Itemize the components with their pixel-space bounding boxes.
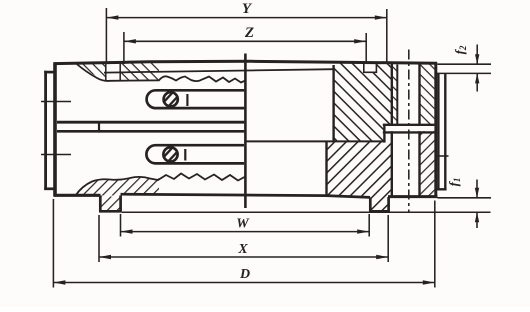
cross pin white band [386,126,435,131]
spacer ring left line [437,73,439,189]
dimension X arrows [99,255,388,259]
flange silhouette line below body [122,211,491,213]
svg-text:D: D [239,267,250,282]
top wall inner surface line [104,69,334,72]
cross pin top line [383,124,435,126]
left cap top edge [44,71,55,74]
body bottom edge right segment [388,195,438,198]
end cap right band hatch upper [420,64,435,126]
end cap right band hatch lower [420,130,435,196]
body bottom edge middle segment [121,194,371,197]
dimension W arrows [121,229,370,233]
cavity bottom line [247,140,386,142]
dimension f1 upper extension [438,197,492,199]
top wall break wavy line [76,63,246,83]
body bottom edge left segment [54,194,101,197]
inner sleeve parting line [244,54,247,209]
left cap left edge [44,71,47,190]
dimension D line [53,282,434,284]
spacer ring bottom edge [437,188,447,190]
spacer ring centerline tick [436,155,449,157]
cross pin bottom line [383,131,435,133]
dimension f2 line [476,45,478,65]
end cap boundary line [391,63,393,196]
bottom wall break wavy line [76,174,246,196]
dimension W extension left [120,214,122,237]
svg-text:Y: Y [242,1,253,17]
upper screw slot slash [163,93,178,107]
dimension X extension left [98,215,100,262]
body left face [53,62,57,196]
spacer ring right line [444,73,446,189]
lower screw head [163,147,177,161]
flange lower block left edge [325,141,327,195]
flange step vertical [383,124,385,143]
central bore step tick [98,121,100,133]
dimension Z arrows [124,39,366,43]
svg-text:W: W [236,217,250,232]
dimension Y extension left [105,8,107,64]
left cap lower hole centerline tick [41,154,71,156]
lower slot pin tick [184,149,186,161]
dimension f2 upper extension [438,63,492,65]
bottom left lug hatch [100,197,120,211]
dimension X extension right [387,215,389,262]
keyway right edge [119,63,121,80]
flange upper block left edge [332,65,334,141]
body top edge [54,61,437,63]
svg-text:f1: f1 [446,178,462,187]
dimension Z line [124,40,366,42]
central bore upper line [57,121,244,124]
dimension Y arrows [106,15,386,19]
dimension Y extension right [386,9,388,62]
dimension f1 line [476,180,478,198]
flange top notch bottom [363,71,377,73]
flange lower block hatch [327,141,392,210]
flange top notch right edge [375,63,377,72]
left cap upper hole centerline tick [41,101,71,103]
dimension W line [121,231,370,233]
dimension D extension right [434,201,436,288]
end cap hole right edge [418,65,420,196]
keyway left edge [105,63,107,80]
dimension W extension right [368,214,370,237]
end cap hole centerline [408,50,410,212]
lower screw slot slash [163,148,178,162]
dimension D extension left [52,199,54,288]
svg-text:X: X [237,242,248,257]
end cap right face [434,62,437,198]
upper screw head [164,92,178,106]
svg-text:f2: f2 [452,45,468,54]
svg-text:Z: Z [244,25,254,41]
dimension f2 arrows [475,54,479,83]
bottom wall hatch [76,177,160,196]
dimension f1 arrows [475,188,479,222]
central bore lower line [57,130,244,133]
dimension X line [99,256,388,258]
upper screw slot outline [147,90,245,108]
top wall hatch right of keyway [120,63,159,81]
end cap left rib hatch [392,64,398,124]
dimension Z extension right [365,33,367,62]
dimension Z extension left [123,32,125,64]
left cap bottom edge [44,187,55,190]
lower screw slot outline [146,145,244,163]
top wall hatch left of keyway [76,63,106,81]
dimension f2 lower extension [437,72,491,74]
upper slot pin tick [186,94,188,106]
flange top notch left edge [363,63,365,72]
end cap hole left edge upper [396,65,398,125]
bottom right lug outline [369,197,390,211]
dimension Y line [106,17,386,19]
bottom left lug outline [99,196,122,212]
flange upper block hatch [334,63,391,141]
dimension D arrows [53,280,434,284]
